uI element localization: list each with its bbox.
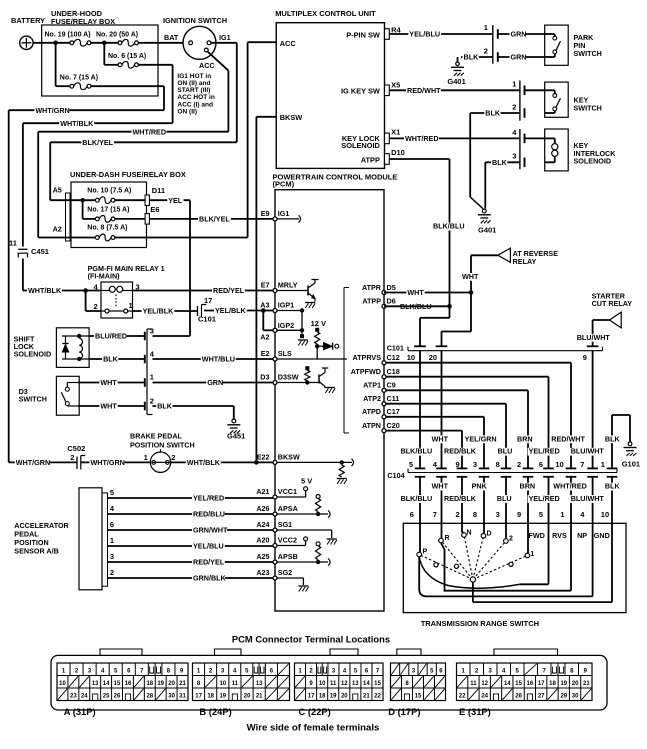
connector E (31P) tab [494, 649, 558, 655]
svg-text:GRN: GRN [207, 378, 223, 387]
svg-text:BLU/WHT: BLU/WHT [571, 447, 605, 456]
wire YEL/BLK relay pin1 to C101 [133, 310, 198, 312]
wire YEL/BLK to A3 [204, 310, 273, 312]
wire battery to fuse 19 [33, 42, 70, 44]
under-hood fuse/relay box [42, 25, 158, 96]
svg-text:ON (II): ON (II) [177, 108, 197, 115]
SG2 internal ground [275, 577, 303, 579]
svg-text:APSB: APSB [278, 552, 298, 561]
wire ACC diagonal to WHT/RED drop [208, 52, 229, 71]
svg-text:IGP1: IGP1 [278, 301, 294, 310]
svg-text:PNK: PNK [472, 482, 488, 491]
svg-text:WHT: WHT [407, 288, 424, 297]
svg-text:BLU/WHT: BLU/WHT [577, 333, 611, 342]
svg-text:G401: G401 [447, 77, 465, 86]
wire ATPN C20 to column x=462 [384, 430, 462, 432]
svg-text:1: 1 [512, 80, 516, 89]
svg-text:SG1: SG1 [278, 520, 292, 529]
svg-text:5 V: 5 V [301, 477, 312, 486]
svg-text:13: 13 [352, 681, 359, 687]
svg-text:10: 10 [59, 681, 66, 687]
relay coil [109, 286, 115, 292]
svg-text:BLK: BLK [492, 158, 508, 167]
wire ATPD C17 to column x=484 [384, 416, 484, 418]
svg-text:17: 17 [538, 681, 545, 687]
C101 pin20 column down [441, 351, 443, 469]
svg-text:A (31P): A (31P) [64, 706, 96, 717]
connector pin 2 [144, 402, 146, 411]
svg-text:29: 29 [560, 694, 567, 700]
svg-text:YEL/RED: YEL/RED [529, 447, 560, 456]
svg-text:17: 17 [195, 694, 202, 700]
relay contact [115, 295, 117, 308]
svg-text:28: 28 [146, 694, 153, 700]
svg-text:22: 22 [459, 694, 466, 700]
svg-text:ATPRVS: ATPRVS [353, 353, 382, 362]
connector pin 1 [144, 378, 146, 387]
svg-text:13: 13 [92, 681, 99, 687]
C104 terminal x=571 [566, 467, 577, 469]
terminal locations outer box [51, 655, 607, 710]
GND column and common link [611, 523, 613, 602]
svg-text:BLU: BLU [497, 494, 512, 503]
svg-text:26: 26 [114, 694, 121, 700]
svg-text:CUT RELAY: CUT RELAY [592, 299, 633, 308]
svg-text:Wire side of female terminals: Wire side of female terminals [247, 723, 380, 734]
svg-text:A3: A3 [260, 301, 269, 310]
BLK wire from G101 [611, 415, 613, 468]
svg-text:C11: C11 [387, 394, 400, 403]
svg-text:SG2: SG2 [278, 568, 292, 577]
wire GRN to D3 [153, 382, 274, 384]
svg-text:24: 24 [81, 694, 88, 700]
svg-text:G451: G451 [227, 431, 245, 440]
svg-text:GND: GND [594, 531, 610, 540]
wire E2 SLS internal [275, 358, 347, 360]
svg-text:16: 16 [527, 681, 534, 687]
svg-text:1: 1 [530, 551, 534, 558]
wire BLK/BLU from ATPP D6 [384, 305, 450, 307]
C104 terminal x=420 [415, 467, 426, 469]
sensor pin 5 wire YEL/RED [108, 497, 274, 499]
svg-text:1: 1 [150, 373, 154, 382]
wire WHT/BLU to E2 [153, 358, 274, 360]
svg-text:12 V: 12 V [311, 319, 326, 328]
C104 terminal x=592.6 [587, 467, 598, 469]
svg-text:APSA: APSA [278, 504, 298, 513]
wire RED/YEL relay pin3 to E7 [133, 290, 274, 292]
wire node to fuse No.6 [103, 43, 105, 65]
svg-text:POSITION SWITCH: POSITION SWITCH [130, 441, 195, 450]
svg-text:ATPN: ATPN [362, 421, 381, 430]
svg-text:2: 2 [70, 453, 74, 462]
sensor pin 3 wire RED/YEL [108, 561, 274, 563]
svg-text:BLK: BLK [485, 109, 501, 118]
svg-text:C (22P): C (22P) [299, 706, 331, 717]
svg-text:2: 2 [150, 397, 154, 406]
wire BLK/BLU down to C101 pin 10 [449, 306, 451, 318]
wire BLK/YEL [50, 141, 237, 143]
svg-text:YEL/BLK: YEL/BLK [215, 306, 247, 315]
5V supply VCC2 [304, 537, 308, 541]
svg-text:31: 31 [179, 694, 186, 700]
key switch connector [519, 80, 521, 120]
svg-text:R4: R4 [391, 26, 401, 35]
wire WHT (pin2) [78, 405, 145, 407]
svg-text:ON (II) and: ON (II) and [177, 80, 210, 87]
svg-text:IG KEY SW: IG KEY SW [341, 87, 380, 96]
svg-text:D3SW: D3SW [278, 373, 299, 382]
svg-text:1: 1 [110, 536, 114, 545]
wire node to fuse No.7 [55, 43, 57, 86]
svg-text:E9: E9 [261, 209, 270, 218]
svg-text:D: D [487, 530, 492, 537]
svg-text:WHT/BLU: WHT/BLU [202, 355, 235, 364]
svg-text:BKSW: BKSW [280, 113, 303, 122]
svg-text:21: 21 [179, 681, 186, 687]
svg-text:A24: A24 [256, 520, 269, 529]
wire A5 node down to fuse No.17 [82, 200, 84, 219]
C101 pin10 column down [419, 351, 421, 469]
svg-text:ATPP: ATPP [362, 297, 381, 306]
svg-text:TRANSMISSION RANGE SWITCH: TRANSMISSION RANGE SWITCH [421, 619, 539, 628]
svg-text:11: 11 [9, 239, 17, 248]
svg-text:RED/WHT: RED/WHT [407, 86, 441, 95]
svg-text:B (24P): B (24P) [199, 706, 231, 717]
park pin switch box [545, 25, 569, 65]
svg-text:SOLENOID: SOLENOID [14, 350, 52, 359]
key switch box [545, 82, 569, 117]
C101 pin9 column down (BLU/WHT) [592, 351, 594, 469]
BLK wire from key switch pin 2 [470, 112, 520, 114]
svg-text:18: 18 [319, 694, 326, 700]
svg-text:No. 10 (7.5 A): No. 10 (7.5 A) [87, 188, 131, 195]
svg-text:GRN: GRN [511, 30, 527, 39]
svg-text:15: 15 [114, 681, 121, 687]
svg-text:ACC (I) and: ACC (I) and [177, 101, 213, 108]
wire WHT/RED to A2, fuse No.8 [38, 237, 95, 239]
svg-text:1: 1 [484, 23, 488, 32]
svg-text:NP: NP [577, 531, 587, 540]
svg-text:D (17P): D (17P) [388, 706, 420, 717]
connector pin 4 [144, 355, 146, 364]
svg-text:SOLENOID: SOLENOID [341, 141, 380, 150]
svg-text:BLU/RED: BLU/RED [95, 332, 127, 341]
svg-text:C104: C104 [387, 471, 404, 480]
connector E (31P) grid [457, 663, 593, 701]
svg-text:BRAKE PEDAL: BRAKE PEDAL [130, 432, 183, 441]
wire IG1 to BLK/YEL drop [211, 42, 237, 44]
connector C451 pin 11 [18, 247, 28, 259]
svg-text:11: 11 [470, 681, 477, 687]
svg-text:ATP1: ATP1 [363, 381, 381, 390]
C104 terminal x=528 [523, 467, 534, 469]
svg-text:C101: C101 [198, 315, 216, 324]
218.9 [95, 217, 99, 221]
sensor pin 2 wire GRN/BLK [108, 577, 274, 579]
wire ATPFWD C18 to column x=548.5 [384, 376, 549, 378]
svg-text:YEL/RED: YEL/RED [529, 494, 560, 503]
svg-text:SWITCH: SWITCH [19, 394, 47, 403]
svg-text:G101: G101 [622, 460, 640, 469]
key interlock solenoid box [545, 129, 569, 171]
svg-text:P-PIN SW: P-PIN SW [346, 30, 380, 39]
svg-text:20: 20 [341, 694, 348, 700]
svg-text:(PCM): (PCM) [273, 180, 295, 189]
svg-text:20: 20 [572, 681, 579, 687]
svg-text:RELAY: RELAY [513, 257, 537, 266]
svg-text:C101: C101 [387, 343, 404, 352]
svg-text:WHT/GRN: WHT/GRN [91, 458, 125, 467]
wire YEL to shift lock pin3 [153, 335, 191, 337]
svg-text:5: 5 [409, 460, 413, 469]
svg-text:BLK: BLK [103, 355, 119, 364]
connector pin 3 [144, 332, 146, 341]
svg-text:BLK: BLK [605, 482, 621, 491]
C104 terminal x=612 [607, 467, 618, 469]
svg-text:2: 2 [94, 302, 98, 311]
svg-text:ACC: ACC [280, 39, 297, 48]
svg-text:G401: G401 [478, 226, 496, 235]
svg-text:D11: D11 [152, 186, 165, 195]
svg-text:15: 15 [515, 681, 522, 687]
connector A bracket [66, 193, 71, 241]
svg-text:6: 6 [539, 460, 543, 469]
svg-text:SENSOR A/B: SENSOR A/B [14, 547, 58, 556]
svg-text:RVS: RVS [552, 531, 567, 540]
svg-text:WHT: WHT [100, 378, 117, 387]
wire WHT down to C101 pin 20 [470, 293, 472, 332]
MCU pin X1, wire WHT/RED [389, 137, 520, 139]
svg-text:YEL/BLU: YEL/BLU [409, 30, 440, 39]
svg-text:ACC: ACC [199, 61, 215, 70]
svg-text:ATPR: ATPR [362, 283, 382, 292]
svg-text:C17: C17 [387, 407, 400, 416]
svg-text:11: 11 [330, 681, 337, 687]
wire WHT/GRN [9, 109, 164, 111]
svg-text:RED/BLK: RED/BLK [444, 447, 477, 456]
svg-text:BLK/YEL: BLK/YEL [82, 138, 113, 147]
svg-text:(FI-MAIN): (FI-MAIN) [88, 271, 121, 280]
connector D11 [145, 195, 149, 206]
svg-text:E2: E2 [261, 349, 270, 358]
svg-text:3: 3 [496, 510, 500, 519]
svg-text:YEL/GRN: YEL/GRN [465, 434, 497, 443]
connector E6 [145, 214, 149, 225]
svg-text:BLK: BLK [157, 402, 173, 411]
svg-text:10: 10 [601, 510, 609, 519]
svg-text:6: 6 [110, 520, 114, 529]
svg-text:GRN/BLK: GRN/BLK [193, 574, 227, 583]
C104 terminal x=506 [501, 467, 512, 469]
svg-text:WHT: WHT [462, 272, 479, 281]
svg-text:YEL: YEL [168, 196, 183, 205]
svg-text:START (III): START (III) [177, 87, 210, 94]
wire WHT/GRN to switch [81, 461, 150, 463]
selector arc [419, 557, 520, 588]
svg-text:E (31P): E (31P) [459, 706, 491, 717]
svg-text:BATTERY: BATTERY [11, 16, 45, 25]
svg-text:18: 18 [207, 694, 214, 700]
arc detent contacts [434, 563, 438, 567]
svg-text:30: 30 [168, 694, 175, 700]
svg-text:5: 5 [539, 510, 543, 519]
svg-text:10: 10 [219, 681, 226, 687]
wire color labels above C104 [431, 435, 449, 443]
ground G451 [232, 419, 236, 423]
wire fuse20 to BAT terminal [138, 42, 188, 44]
connector D (17P) grid [391, 663, 446, 701]
svg-text:3: 3 [473, 460, 477, 469]
svg-text:2: 2 [512, 103, 516, 112]
APSA pull-up [316, 495, 320, 499]
svg-text:3: 3 [512, 152, 516, 161]
BLK wire from interlock pin 3 [485, 161, 520, 163]
svg-text:2: 2 [509, 536, 513, 543]
svg-text:GRN/WHT: GRN/WHT [193, 526, 228, 535]
svg-text:18: 18 [146, 681, 153, 687]
svg-text:30: 30 [572, 694, 579, 700]
wire WHT/BLK [23, 122, 173, 124]
MCU pin D10, BLK/BLU drop [389, 158, 449, 160]
svg-text:7: 7 [580, 460, 584, 469]
svg-text:21: 21 [583, 681, 590, 687]
wire BLK to G451 [153, 405, 234, 407]
svg-text:BRN: BRN [520, 482, 536, 491]
APSB pull-up [316, 542, 320, 546]
wire WHT/RED [38, 131, 228, 133]
svg-text:21: 21 [256, 694, 263, 700]
wire YEL from D11 [149, 199, 190, 201]
MCU pin X5, wire RED/WHT [389, 89, 520, 91]
svg-text:No. 7 (15 A): No. 7 (15 A) [60, 75, 98, 82]
svg-text:C20: C20 [387, 421, 400, 430]
svg-text:14: 14 [363, 681, 370, 687]
sensor pin 6 wire GRN/WHT [108, 529, 274, 531]
svg-text:SOLENOID: SOLENOID [574, 157, 612, 166]
svg-text:WHT: WHT [432, 482, 449, 491]
svg-text:20: 20 [244, 694, 251, 700]
svg-text:YEL/BLU: YEL/BLU [193, 542, 224, 551]
86.2 [70, 84, 74, 88]
wire E9 IG1 internal [275, 218, 299, 220]
svg-text:BRN: BRN [517, 434, 533, 443]
connector C (22P) grid [295, 663, 384, 701]
connector D (17P) tab [397, 649, 421, 655]
key interlock connector [519, 129, 521, 169]
svg-text:VCC1: VCC1 [278, 487, 297, 496]
svg-text:9: 9 [517, 510, 521, 519]
svg-text:WHT/RED: WHT/RED [553, 482, 587, 491]
svg-text:WHT/GRN: WHT/GRN [16, 458, 50, 467]
svg-text:BKSW: BKSW [278, 452, 300, 461]
wire BLU/RED [89, 335, 145, 337]
svg-text:19: 19 [330, 694, 337, 700]
svg-text:24: 24 [481, 694, 488, 700]
node junction No.20/No.6 [102, 41, 107, 46]
wire ATP2 C11 to column x=506 [384, 403, 506, 405]
svg-text:RED/WHT: RED/WHT [551, 434, 585, 443]
node junction battery feed [53, 41, 58, 46]
IGP1/IGP2 internal tie to ground [275, 310, 302, 312]
wire BLK/YEL E6 to PCM E9 [149, 218, 273, 220]
svg-text:ATPFWD: ATPFWD [351, 367, 381, 376]
svg-text:RED/YEL: RED/YEL [193, 558, 225, 567]
svg-text:MRLY: MRLY [278, 281, 298, 290]
svg-text:UNDER-DASH FUSE/RELAY BOX: UNDER-DASH FUSE/RELAY BOX [70, 170, 186, 179]
svg-text:14: 14 [504, 681, 511, 687]
svg-text:SWITCH: SWITCH [574, 103, 602, 112]
svg-text:WHT/RED: WHT/RED [133, 127, 167, 136]
svg-text:D3: D3 [260, 373, 269, 382]
svg-text:RED/YEL: RED/YEL [213, 286, 245, 295]
svg-text:ATP2: ATP2 [363, 394, 381, 403]
wire ATP1 C9 to column x=528 [384, 389, 528, 391]
contact stems from columns [419, 523, 421, 552]
svg-text:E6: E6 [150, 205, 159, 214]
contact circles [417, 552, 422, 557]
svg-text:A21: A21 [256, 487, 269, 496]
svg-text:R: R [445, 535, 450, 542]
svg-text:7: 7 [433, 510, 437, 519]
MRLY driver transistor [275, 290, 308, 292]
svg-text:11: 11 [232, 681, 239, 687]
wire fuse8 out, up to MCU ACC [115, 237, 248, 239]
connector C101 pin 17 [197, 306, 199, 316]
svg-text:ACC HOT in: ACC HOT in [177, 94, 214, 101]
AT reverse relay [470, 255, 472, 292]
wire WHT from ATPR D5 [384, 292, 471, 294]
svg-text:No. 8 (7.5 A): No. 8 (7.5 A) [87, 225, 127, 232]
wire fuse6 out, WHT/BLK drop [138, 64, 172, 66]
wire fuse7 out, WHT/GRN drop [91, 85, 164, 87]
battery [20, 36, 33, 49]
svg-text:2: 2 [517, 460, 521, 469]
svg-text:26: 26 [515, 694, 522, 700]
svg-text:C18: C18 [387, 367, 400, 376]
svg-text:10: 10 [555, 460, 563, 469]
C104 terminal x=484 [479, 467, 490, 469]
svg-text:12: 12 [481, 681, 488, 687]
svg-text:BLK/BLU: BLK/BLU [401, 494, 433, 503]
svg-text:GRN: GRN [511, 53, 527, 62]
wire BLK [89, 358, 145, 360]
connector B (24P) tab [215, 649, 242, 655]
svg-text:A25: A25 [256, 552, 269, 561]
SG1 internal ground [275, 529, 332, 531]
wire MCU BKSW down to E22 [256, 116, 276, 118]
BLK wire to G401 [461, 56, 493, 58]
C104 terminal x=462 [457, 467, 468, 469]
svg-text:8: 8 [473, 510, 477, 519]
svg-text:2: 2 [484, 47, 488, 56]
64.8 [118, 63, 122, 67]
svg-text:23: 23 [70, 694, 77, 700]
D3SW pull-up and transistor [305, 366, 309, 370]
svg-text:19: 19 [560, 681, 567, 687]
svg-text:BAT: BAT [164, 33, 179, 42]
svg-text:1: 1 [129, 301, 133, 310]
svg-text:5: 5 [110, 488, 114, 497]
svg-text:BLK: BLK [605, 434, 621, 443]
svg-text:9: 9 [583, 353, 587, 362]
svg-text:D6: D6 [387, 297, 396, 306]
wire E22 BKSW internal [275, 461, 352, 463]
C104 terminal x=548.5 [543, 467, 554, 469]
42.8 [70, 41, 74, 45]
svg-text:No. 20 (50 A): No. 20 (50 A) [96, 32, 138, 39]
svg-text:ATPP: ATPP [361, 155, 380, 164]
